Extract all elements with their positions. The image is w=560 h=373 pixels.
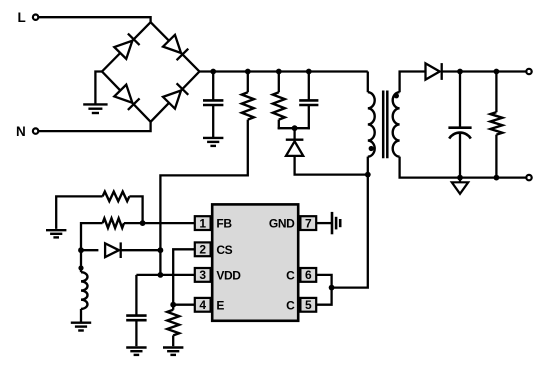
node drain jumper junction (329, 285, 335, 291)
svg-text:E: E (216, 298, 224, 312)
wire load resistor lower lead (495, 135, 497, 178)
ground (VDD cap) (126, 348, 146, 355)
node snubber clamp junction (292, 125, 298, 131)
wire load resistor upper lead (495, 72, 497, 113)
resistor R1 (startup) (242, 92, 254, 119)
wire snubber diode cathode lead (293, 128, 295, 140)
wire aux winding lower lead (80, 309, 82, 322)
node sense junction (170, 302, 176, 308)
resistor R3 (load) (490, 112, 502, 134)
wire snubber cap upper lead (308, 72, 310, 101)
wire snubber diode to primary return (295, 156, 368, 175)
node output positive terminal (526, 69, 531, 74)
transformer T1 secondary polarity dot (394, 93, 399, 98)
wire output cap upper lead (459, 72, 461, 128)
ground (sense resistor) (163, 348, 183, 355)
node primary return junction (365, 172, 371, 178)
wire snubber resistor upper lead (278, 72, 280, 93)
wire CS pin to sense node (173, 249, 195, 304)
resistor R4 (FB to ground) (103, 192, 130, 202)
wire transformer primary top lead (367, 72, 369, 93)
label E (216, 298, 224, 312)
wire transformer secondary top lead (400, 72, 425, 93)
node output cap top junction (457, 69, 463, 75)
node load resistor top junction (494, 69, 500, 75)
wire startup resistor to VDD node (160, 120, 247, 275)
diode D5 (snubber clamp, pointing up) (286, 140, 304, 156)
wire GND pin lead (316, 222, 332, 224)
wire VDD row to pin 3 (136, 274, 194, 276)
wire N to bridge bottom (38, 122, 150, 131)
wire aux diode anode lead (81, 249, 98, 251)
transformer T1 core (383, 91, 387, 159)
node N (neutral input terminal) (16, 124, 38, 139)
pin 4 box (195, 298, 211, 312)
wire output cap lower lead (459, 133, 461, 177)
pin 2 box (195, 242, 211, 256)
svg-text:3: 3 (199, 268, 206, 282)
wire startup resistor upper lead (247, 72, 249, 93)
svg-text:FB: FB (216, 217, 232, 231)
svg-text:C: C (286, 298, 295, 312)
bridge diode D3 (left to bottom) (114, 85, 139, 110)
wire snubber cap lower lead (308, 105, 310, 129)
pin 3 box (195, 268, 211, 282)
label CS (216, 243, 232, 257)
wire L to bridge top (38, 17, 150, 22)
wire VDD cap lower lead (135, 320, 137, 346)
wire transformer primary bottom lead (367, 157, 369, 175)
pin 6 box (300, 268, 316, 282)
bridge diode D1 (left to top) (114, 34, 139, 59)
svg-text:5: 5 (305, 298, 312, 312)
diode D7 (aux rectifier) (105, 242, 121, 258)
node output return junction 2 (494, 175, 500, 181)
resistor R5 (FB to aux winding) (103, 218, 124, 228)
wire snubber resistor lower lead (278, 120, 280, 130)
svg-text:1: 1 (199, 216, 206, 230)
pin 7 box (300, 216, 316, 230)
node VDD feed junction (diode cathode) (158, 247, 164, 253)
resistor R2 (snubber) (273, 92, 285, 119)
svg-text:GND: GND (269, 217, 295, 231)
bridge diode D2 (top to right) (163, 35, 188, 60)
pin 1 box (195, 216, 211, 230)
node FB divider junction (140, 220, 146, 226)
capacitor C3 (output, polarized) (448, 128, 471, 139)
node output return junction 1 (457, 175, 463, 181)
transformer T1 primary polarity dot (369, 146, 374, 151)
svg-text:7: 7 (305, 216, 312, 230)
wire FB node to pin 1 (143, 222, 195, 224)
wire sense resistor lower lead (172, 335, 174, 346)
ground (bulk cap) (203, 138, 223, 146)
wire FB lower resistor right lead (124, 222, 143, 224)
node L (line input terminal) (18, 10, 39, 25)
resistor R6 (current sense) (167, 310, 179, 336)
wire FB upper resistor left lead (56, 196, 102, 229)
svg-text:C: C (286, 268, 295, 282)
wire snubber RC join (278, 127, 310, 129)
ground (aux winding) (71, 323, 91, 331)
wire VDD cap upper lead (135, 275, 137, 316)
label FB (216, 217, 232, 231)
svg-text:2: 2 (199, 243, 206, 257)
wire E pin lead (173, 304, 195, 306)
svg-text:N: N (16, 124, 26, 139)
wire bridge negative node to ground (95, 72, 102, 105)
node bulk rail junction 3 (276, 69, 282, 75)
label GND (269, 217, 295, 231)
transformer T1 primary winding (368, 92, 375, 156)
pin 5 box (300, 298, 316, 312)
transformer T1 secondary winding (393, 92, 400, 156)
capacitor C4 (VDD) (126, 316, 146, 321)
diode D6 (output rectifier) (426, 63, 442, 80)
wire bridge diamond edges (102, 22, 199, 122)
label C pin6 (286, 268, 295, 282)
bridge diode D4 (bottom to right) (163, 83, 188, 108)
ground (bridge negative) (83, 104, 107, 113)
svg-text:CS: CS (216, 243, 232, 257)
node bulk rail junction 1 (210, 69, 216, 75)
node VDD junction (158, 272, 164, 278)
capacitor C1 (bulk) (203, 100, 223, 105)
wire output positive rail (442, 70, 529, 72)
wire sense resistor upper lead (172, 305, 174, 310)
svg-text:L: L (18, 10, 26, 25)
wire output ground stub (459, 178, 461, 183)
wire aux winding upper lead (80, 250, 82, 272)
inductor L1 (aux winding) (81, 272, 88, 309)
ground (output, chassis triangle) (452, 182, 468, 194)
capacitor C2 (snubber) (299, 100, 318, 105)
node bulk rail junction 4 (306, 69, 312, 75)
inductor L1 (aux winding) polarity dot (78, 265, 83, 270)
wire drain to transformer primary (332, 175, 368, 288)
wire main DC rail (199, 70, 367, 72)
wire bulk cap upper lead (212, 72, 214, 101)
label C pin5 (286, 298, 295, 312)
wire FB upper resistor right lead (129, 196, 142, 223)
wire transformer secondary bottom lead (400, 157, 460, 178)
ground (FB divider) (46, 230, 66, 237)
label VDD (216, 268, 241, 282)
node aux winding top junction (78, 247, 84, 253)
svg-text:VDD: VDD (216, 268, 241, 282)
wire pin 6 to pin 5 jumper (316, 275, 331, 305)
wire bulk cap lower lead (212, 105, 214, 137)
ground (IC GND pin, right-facing) (332, 212, 340, 234)
op-amp U1 (controller IC body) (212, 204, 298, 320)
svg-text:6: 6 (305, 268, 312, 282)
wire aux diode cathode to VDD branch (121, 249, 161, 251)
node bulk rail junction 2 (245, 69, 251, 75)
svg-text:4: 4 (199, 298, 206, 312)
wire output return rail (460, 176, 529, 178)
node output negative terminal (526, 175, 531, 180)
wire FB lower resistor left lead (81, 223, 103, 250)
